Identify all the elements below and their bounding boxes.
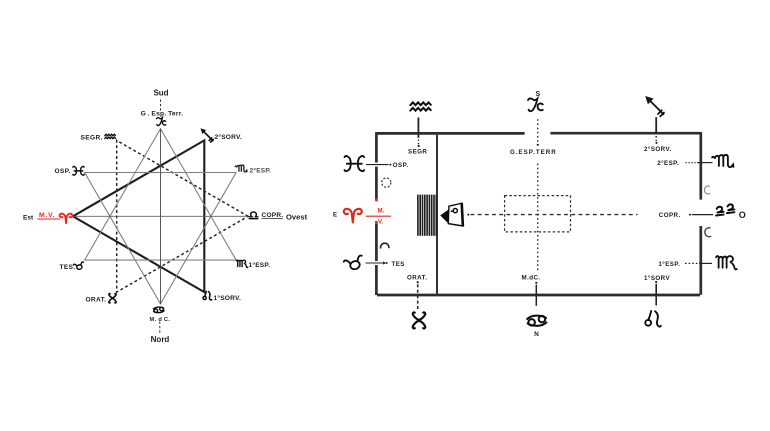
svg-text:ORAT.: ORAT. xyxy=(86,297,107,304)
svg-text:1°SORV: 1°SORV xyxy=(644,275,670,282)
svg-text:2°ESP.: 2°ESP. xyxy=(250,167,272,175)
svg-text:E: E xyxy=(333,213,337,219)
svg-text:Ovest: Ovest xyxy=(286,212,308,221)
svg-text:SEGR.: SEGR. xyxy=(81,135,103,142)
svg-text:2°SORV.: 2°SORV. xyxy=(644,146,672,153)
svg-text:COPR.: COPR. xyxy=(262,212,284,219)
svg-text:Nord: Nord xyxy=(151,335,170,344)
svg-text:M.: M. xyxy=(378,208,385,214)
svg-text:1°ESP.: 1°ESP. xyxy=(658,261,680,268)
svg-text:1°ESP.: 1°ESP. xyxy=(249,261,271,269)
svg-text:G . Esp. Terr.: G . Esp. Terr. xyxy=(141,111,184,118)
svg-text:1°SORV.: 1°SORV. xyxy=(214,294,242,302)
svg-text:M.dC.: M.dC. xyxy=(522,275,541,282)
svg-text:COPR.: COPR. xyxy=(659,212,681,219)
svg-text:OSP.: OSP. xyxy=(393,162,409,169)
svg-text:OSP.: OSP. xyxy=(55,168,71,175)
svg-text:Sud: Sud xyxy=(153,89,168,98)
svg-text:M.V.: M.V. xyxy=(39,212,55,219)
svg-text:ORAT.: ORAT. xyxy=(407,274,427,281)
svg-text:SEGR: SEGR xyxy=(408,148,427,155)
svg-text:N: N xyxy=(534,331,539,338)
svg-text:TES: TES xyxy=(392,261,405,268)
svg-text:.V.: .V. xyxy=(376,220,383,226)
svg-text:O: O xyxy=(739,210,746,220)
svg-text:2°ESP.: 2°ESP. xyxy=(657,160,679,167)
svg-text:Est: Est xyxy=(23,215,34,222)
svg-text:2°SORV.: 2°SORV. xyxy=(215,133,243,141)
svg-text:M. d C.: M. d C. xyxy=(150,317,171,323)
svg-text:G.ESP.TERR: G.ESP.TERR xyxy=(510,149,557,156)
